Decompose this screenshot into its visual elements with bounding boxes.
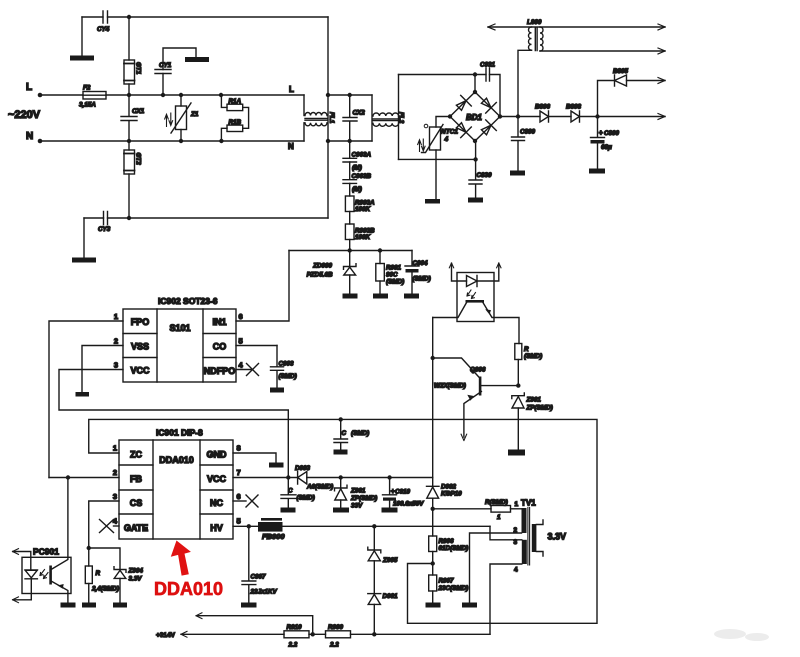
- svg-text:R1B: R1B: [229, 119, 242, 126]
- svg-text:5: 5: [237, 517, 241, 526]
- diode D902 KGP10: [427, 486, 440, 498]
- svg-text:2.2: 2.2: [329, 642, 339, 649]
- wire PC901 LED anode (left arrow): [13, 552, 31, 571]
- wire R1B to N: [221, 128, 227, 141]
- ground (CY1 earth): [185, 57, 209, 62]
- wire L line: [40, 94, 304, 96]
- svg-text:+: +: [599, 130, 603, 137]
- svg-text:R906: R906: [439, 538, 455, 545]
- ground (C904): [404, 294, 419, 299]
- node L terminal: [38, 93, 43, 98]
- node CX2-L junction: [348, 93, 352, 97]
- svg-text:(SMD): (SMD): [351, 430, 369, 437]
- node GT2-CY3 junction: [127, 216, 131, 220]
- svg-text:R901: R901: [386, 265, 402, 272]
- wire R1A to R1B series link: [243, 107, 249, 128]
- resistor R910 2.2: [284, 631, 309, 638]
- wire bridge top stem: [474, 75, 476, 92]
- svg-text:GT2: GT2: [135, 153, 142, 166]
- capacitor C809: [512, 117, 525, 171]
- wire bridge bottom stem: [475, 141, 477, 159]
- wire pin 4 to +314V rail: [490, 564, 522, 634]
- wire earth stem left: [81, 17, 83, 56]
- svg-text:KGP10: KGP10: [441, 491, 462, 498]
- zener Z901 ZP(SMD) upper: [512, 393, 525, 399]
- ground (TV1 pin2): [462, 603, 477, 608]
- ferrite bead FB900: [261, 518, 282, 521]
- ground (R 2,4): [82, 603, 96, 608]
- wire top earth line: [82, 16, 328, 18]
- svg-text:TV1: TV1: [521, 499, 536, 508]
- svg-text:(SMD): (SMD): [413, 276, 431, 283]
- wire N after FL1: [328, 140, 372, 142]
- resistor R907 23C(SMD): [432, 564, 434, 576]
- diode BD1 top-right: [481, 98, 496, 113]
- node loop cap junction: [339, 417, 343, 421]
- capacitor C (SMD) on ZC loop: [334, 419, 348, 449]
- svg-text:3: 3: [114, 361, 118, 370]
- node N-CX1 junction: [127, 139, 131, 143]
- ground (NTC1): [425, 199, 440, 204]
- ground (Z901 33V): [333, 508, 349, 513]
- wire PC901 LED cathode (left arrow): [13, 579, 31, 600]
- svg-text:NDFPO: NDFPO: [204, 366, 236, 376]
- wire CY3 line: [84, 217, 328, 219]
- svg-text:5: 5: [239, 337, 243, 346]
- svg-text:3: 3: [514, 539, 518, 546]
- svg-text:Z901: Z901: [350, 488, 366, 495]
- svg-text:8: 8: [237, 444, 241, 453]
- ground (C903): [270, 388, 284, 393]
- svg-text:~220V: ~220V: [8, 109, 41, 121]
- svg-text:L: L: [289, 85, 294, 94]
- node Q906 collector junction: [516, 383, 520, 387]
- svg-text:(SMD): (SMD): [297, 495, 315, 502]
- ground (VCC C): [281, 508, 296, 513]
- svg-text:6: 6: [237, 492, 241, 501]
- node sense-ZD900: [348, 248, 352, 252]
- wire DC+ line: [500, 116, 665, 118]
- node CS-R-Z904 junction: [87, 546, 91, 550]
- inductor FL2 common mode choke: [371, 95, 373, 141]
- svg-text:GT1: GT1: [135, 62, 142, 75]
- svg-text:R907: R907: [439, 578, 455, 585]
- svg-text:PC901: PC901: [33, 547, 59, 557]
- svg-text:C830: C830: [477, 172, 493, 179]
- svg-text:F2: F2: [83, 85, 91, 92]
- svg-text:23C(SMD): 23C(SMD): [438, 585, 469, 592]
- light arrows (PC901): [40, 570, 45, 576]
- node FL1-N junction: [326, 139, 330, 143]
- capacitor C800 electrolytic: [591, 117, 605, 138]
- transistor Q906 W2X(SMD): [433, 358, 479, 377]
- diode B808: [571, 111, 580, 122]
- no-connect X (GATE): [100, 520, 114, 533]
- svg-text:NC: NC: [210, 498, 223, 508]
- svg-text:(M): (M): [352, 186, 362, 193]
- capacitor C903 (SMD): [271, 346, 284, 388]
- wire LED cathode up arrow: [477, 264, 499, 282]
- ground (ZC loop cap): [334, 450, 348, 455]
- capacitor CX1: [121, 95, 137, 141]
- svg-text:C: C: [342, 430, 347, 437]
- node HV-Z905 junction: [372, 524, 376, 528]
- inductor FL1 common mode choke: [303, 95, 305, 116]
- svg-text:Z904: Z904: [128, 568, 144, 575]
- node HV-C907 junction: [247, 524, 251, 528]
- node VCC-Z901 junction: [339, 475, 343, 479]
- varistor Z1: [180, 95, 182, 106]
- node AC top / bridge stem: [473, 72, 477, 76]
- ground (PC901 emitter): [61, 603, 76, 608]
- svg-text:C963A: C963A: [352, 152, 372, 159]
- svg-text:R909: R909: [328, 624, 344, 631]
- svg-text:FPO: FPO: [131, 317, 150, 327]
- ground (C830): [468, 198, 483, 203]
- svg-text:(SMD): (SMD): [386, 279, 404, 286]
- svg-text:C910: C910: [395, 489, 411, 496]
- LED (optocoupler U2): [467, 276, 478, 287]
- no-connect X (NC): [246, 495, 258, 507]
- svg-text:3,15A: 3,15A: [79, 102, 96, 109]
- wire sense branch with left arrow: [197, 616, 313, 635]
- resistor R1B: [227, 125, 243, 131]
- resistor R909 2.2: [326, 631, 351, 638]
- zener ZD900 PZD5.6B: [349, 251, 351, 267]
- svg-text:FB900: FB900: [262, 532, 285, 541]
- node L-GT1 junction: [127, 93, 131, 97]
- TV1 core: [528, 508, 530, 566]
- svg-text:3: 3: [113, 492, 117, 501]
- arrow right output line1: [658, 24, 665, 30]
- node VCC-C910 junction: [387, 475, 391, 479]
- node AC bottom junction: [473, 157, 477, 161]
- LED (PC901): [25, 570, 37, 579]
- red arrow pointing to DDA010: [171, 541, 191, 576]
- svg-text:A6(SMD): A6(SMD): [306, 484, 333, 491]
- capacitor C963A: [343, 141, 357, 162]
- node R910-R909 junction: [311, 632, 315, 636]
- svg-text:B805: B805: [613, 68, 629, 75]
- svg-text:Z905: Z905: [382, 557, 398, 564]
- node bridge bottom vertex: [473, 139, 477, 143]
- ground (C809): [510, 171, 525, 176]
- svg-text:L: L: [26, 82, 32, 93]
- resistor R903B 100K: [349, 212, 351, 225]
- svg-text:ZP(SMD): ZP(SMD): [350, 495, 377, 502]
- node VCC-C junction: [286, 475, 290, 479]
- light arrows (U2): [467, 290, 471, 296]
- svg-text:DDA010: DDA010: [159, 455, 194, 465]
- no-connect X (pin 4): [247, 364, 259, 376]
- svg-text:B806: B806: [535, 104, 551, 111]
- svg-text:C907: C907: [251, 574, 267, 581]
- resistor R 2,4(SMD): [88, 548, 90, 566]
- svg-text:100K: 100K: [355, 206, 371, 213]
- svg-text:90C: 90C: [386, 272, 398, 279]
- svg-text:FL1: FL1: [328, 112, 335, 124]
- ground (IC901 GND): [269, 463, 284, 468]
- ground (CY3 earth): [72, 258, 96, 263]
- wire +314V rail: [181, 633, 490, 635]
- svg-text:100.0x50V: 100.0x50V: [393, 501, 424, 508]
- svg-text:4: 4: [444, 136, 449, 143]
- arrow right output line4: [658, 114, 665, 120]
- diode BD1 bottom-right: [481, 120, 496, 135]
- svg-text:2: 2: [113, 468, 117, 477]
- ground (C800): [589, 169, 605, 174]
- node bridge left vertex: [448, 114, 452, 118]
- svg-text:R(SMD): R(SMD): [485, 499, 508, 506]
- ground (Z901 upper): [508, 450, 525, 456]
- resistor R901 90C (SMD): [379, 251, 381, 264]
- capacitor C910 100.0x50V electrolytic: [383, 478, 397, 495]
- svg-text:(SMD): (SMD): [279, 373, 297, 380]
- node FL1-L junction: [326, 93, 330, 97]
- svg-text:C931: C931: [480, 62, 496, 69]
- node DC+ L800 junction: [516, 114, 520, 118]
- zener Z904 3.3V: [89, 548, 120, 570]
- wire vertical x328 (earth line through L/N to CY3): [327, 17, 329, 218]
- svg-text:VSS: VSS: [131, 342, 149, 352]
- svg-text:C809: C809: [520, 129, 536, 136]
- ground (top-left earth): [70, 56, 94, 61]
- zener Z905: [373, 526, 375, 550]
- resistor R(SMD) series: [433, 508, 491, 510]
- svg-text:D902: D902: [441, 484, 457, 491]
- arrow left (L800 input): [488, 24, 495, 30]
- svg-text:NTC1: NTC1: [441, 129, 458, 136]
- optocoupler U2 box: [457, 273, 494, 322]
- diode BD1 bottom-left: [456, 123, 471, 138]
- wire CY1 to earth: [163, 48, 196, 70]
- svg-text:D903: D903: [295, 465, 311, 472]
- wire LED anode up arrow: [452, 264, 467, 282]
- svg-text:CS: CS: [130, 498, 143, 508]
- svg-text:2: 2: [114, 337, 118, 346]
- wire N line: [40, 140, 304, 142]
- capacitor C931: [486, 68, 490, 81]
- svg-text:Z901: Z901: [526, 397, 542, 404]
- svg-text:N: N: [288, 142, 294, 151]
- arrow left (+314V): [181, 631, 187, 637]
- svg-text:IC902 SOT23-6: IC902 SOT23-6: [158, 296, 218, 306]
- svg-text:D901: D901: [383, 593, 399, 600]
- wire GT1 bottom: [128, 84, 130, 95]
- svg-text:(M): (M): [352, 165, 362, 172]
- node junction top line / GT1: [127, 15, 131, 19]
- node R1B-N junction: [219, 139, 223, 143]
- node R(SMD)-TV1 node: [431, 507, 435, 511]
- phototransistor (U2) base plate: [466, 300, 485, 303]
- svg-text:BD1: BD1: [466, 113, 483, 122]
- TV1 secondary winding: [532, 524, 537, 552]
- svg-text:B808: B808: [566, 104, 582, 111]
- resistor R906 01D(SMD): [429, 536, 437, 552]
- node D901 junction: [372, 632, 376, 636]
- wire secondary bottom stub: [536, 552, 543, 557]
- ground (VSS): [76, 392, 90, 397]
- node FB-PC901 junction: [66, 475, 70, 479]
- node CX2-N junction: [348, 139, 352, 143]
- svg-text:01D(SMD): 01D(SMD): [439, 545, 469, 552]
- svg-text:W2X(SMD): W2X(SMD): [434, 383, 466, 390]
- node DC+ B805 junction: [595, 114, 599, 118]
- svg-text:S101: S101: [169, 323, 190, 333]
- node bridge right vertex: [498, 114, 502, 118]
- diode D901: [368, 593, 381, 595]
- node loop to divider junction: [431, 561, 435, 565]
- svg-text:R910: R910: [287, 624, 303, 631]
- svg-text:2.2: 2.2: [288, 642, 298, 649]
- diode B805 (reversed): [615, 75, 627, 86]
- svg-text:+314V: +314V: [156, 632, 176, 639]
- svg-text:3.3V: 3.3V: [129, 576, 143, 583]
- IC901 outline: [119, 440, 233, 539]
- phototransistor (PC901) bar: [49, 566, 52, 585]
- emitter arrowhead (U2): [485, 309, 491, 314]
- TV1 primary winding lower (pins 3-4): [522, 540, 527, 564]
- svg-text:IN1: IN1: [212, 317, 226, 327]
- svg-text:CX1: CX1: [132, 108, 145, 115]
- diode D903 A6(SMD): [298, 472, 307, 485]
- svg-text:ZP(SMD): ZP(SMD): [526, 405, 553, 412]
- ground (Z904): [113, 603, 127, 608]
- wire GT1 top: [128, 17, 130, 60]
- zener Z901 ZP(SMD) 33V: [340, 478, 342, 489]
- TV1 primary winding upper (pins 1-2): [522, 508, 527, 533]
- arrow right output line2: [658, 48, 665, 54]
- svg-text:33V: 33V: [351, 503, 363, 510]
- resistor R1A: [221, 95, 227, 107]
- svg-text:4: 4: [514, 567, 518, 574]
- arrows up-down at Z1: [165, 114, 169, 126]
- thermistor NTC1: [436, 117, 450, 128]
- node L-Z1 junction: [179, 93, 183, 97]
- svg-text:VCC: VCC: [130, 366, 150, 376]
- svg-text:C904: C904: [413, 260, 429, 267]
- wire CY1 bottom: [162, 74, 164, 96]
- svg-text:Z1: Z1: [190, 111, 199, 118]
- node L-R1A junction: [219, 93, 223, 97]
- node Q906 base junction: [431, 356, 435, 360]
- resistor R903A 100K: [349, 183, 351, 196]
- svg-text:PZD5.6B: PZD5.6B: [307, 272, 333, 279]
- wire secondary top stub: [536, 520, 543, 525]
- svg-text:R: R: [96, 570, 101, 577]
- watermark: [714, 629, 769, 641]
- svg-text:CO: CO: [213, 342, 227, 352]
- component GT1: [124, 60, 135, 84]
- svg-text:GND: GND: [207, 450, 228, 460]
- svg-text:ZC: ZC: [130, 450, 142, 460]
- svg-text:CY1: CY1: [159, 62, 172, 69]
- svg-text:Q906: Q906: [470, 367, 486, 374]
- svg-text:1: 1: [114, 312, 118, 321]
- wire chain to sense line: [349, 240, 351, 251]
- wire CY3 earth stem: [83, 218, 85, 258]
- wire U2 collector to Q906 base: [433, 303, 467, 318]
- svg-text:7: 7: [237, 468, 241, 477]
- ground (R901): [373, 294, 388, 299]
- svg-text:2,4(SMD): 2,4(SMD): [91, 586, 119, 593]
- wire PC901 collector up to FB: [52, 478, 68, 570]
- svg-text:IC901 DIP-8: IC901 DIP-8: [156, 428, 203, 438]
- svg-text:C: C: [288, 488, 293, 495]
- diode B806: [540, 111, 549, 122]
- ground (ZD900): [343, 294, 358, 299]
- fuse F2 3,15A: [83, 92, 106, 100]
- svg-text:68μ: 68μ: [601, 144, 612, 151]
- node sense-R901: [378, 248, 382, 252]
- svg-text:CY4: CY4: [97, 26, 110, 33]
- svg-text:HV: HV: [210, 523, 223, 533]
- bridge rectifier BD1: [450, 92, 500, 141]
- node N terminal: [38, 139, 43, 144]
- capacitor CY4: [103, 11, 108, 23]
- wire vertical x432 (opto to divider chain): [432, 318, 434, 487]
- svg-text:DDA010: DDA010: [154, 579, 223, 599]
- capacitor CY1: [155, 70, 171, 74]
- svg-text:L800: L800: [527, 19, 542, 26]
- svg-text:6: 6: [239, 312, 243, 321]
- arrow down (Q906 emitter): [461, 434, 467, 440]
- wire sense line (ZD900 rail): [289, 250, 412, 252]
- node bridge top vertex: [473, 90, 477, 94]
- svg-text:ZD900: ZD900: [312, 263, 332, 270]
- svg-text:N: N: [26, 131, 33, 142]
- svg-text:GATE: GATE: [124, 523, 148, 533]
- svg-text:R1A: R1A: [229, 98, 242, 105]
- svg-text:22Jx1KV: 22Jx1KV: [250, 589, 278, 596]
- wire U2 emitter to R(SMD): [483, 303, 519, 344]
- ground (C910): [382, 508, 398, 513]
- svg-text:1: 1: [515, 501, 519, 508]
- capacitor C904 (SMD): [405, 251, 419, 267]
- capacitor C (SMD) at VCC: [281, 478, 296, 508]
- capacitor C907 22Jx1KV: [242, 526, 256, 602]
- wire B805 branch: [598, 81, 666, 117]
- node N-Z1 junction: [179, 139, 183, 143]
- wire L after FL1: [328, 94, 372, 96]
- arrow right output line3: [658, 78, 665, 84]
- wire FL2 right vertical: [398, 75, 400, 160]
- resistor R (SMD) upper: [515, 344, 522, 360]
- wire C931 to bridge right: [490, 75, 501, 117]
- wire pin 2 to ground: [470, 533, 522, 603]
- node L-CY1 junction: [161, 93, 165, 97]
- svg-text:VCC: VCC: [207, 474, 227, 484]
- svg-text:C903: C903: [279, 361, 295, 368]
- wire R to collector node: [517, 360, 519, 386]
- svg-text:(SMD): (SMD): [524, 353, 542, 360]
- wire HV jog to pin 3: [490, 526, 522, 540]
- ground (R907): [426, 603, 441, 608]
- wire AC bottom line: [399, 158, 476, 160]
- svg-text:3.3V: 3.3V: [548, 532, 567, 542]
- capacitor CX2: [343, 95, 357, 141]
- svg-text:1: 1: [113, 444, 117, 453]
- component GT2: [128, 141, 130, 150]
- capacitor CY3: [104, 212, 108, 225]
- capacitor C830: [469, 159, 482, 197]
- arrows up-down at NTC1: [418, 140, 422, 152]
- svg-text:CX2: CX2: [353, 110, 366, 117]
- wire L800 stem up: [518, 50, 532, 116]
- svg-text:C800: C800: [604, 130, 620, 137]
- ground (C907): [241, 603, 257, 608]
- svg-text:FB: FB: [130, 474, 142, 484]
